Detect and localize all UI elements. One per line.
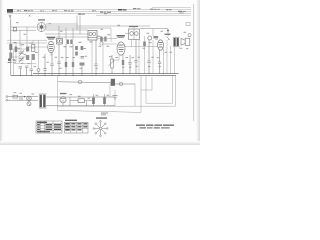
tone network box	[111, 79, 115, 86]
wire mains lower	[8, 99, 38, 101]
wire grid h	[7, 39, 47, 41]
caption line 1	[136, 125, 174, 126]
dial tick cluster b	[24, 10, 33, 11]
tuning capacitor C2	[19, 57, 24, 63]
wire v tun1	[15, 43, 17, 62]
wire v135	[134, 84, 136, 106]
wire drop r1	[58, 26, 60, 39]
dial tick cluster c	[40, 10, 44, 13]
capacitor C19	[134, 40, 137, 74]
coil pack L5	[32, 45, 35, 52]
chassis bus main	[11, 75, 176, 77]
wire v out1	[163, 47, 165, 74]
grid cap arrow V3	[167, 37, 170, 40]
frame right border	[193, 4, 195, 121]
antenna symbol	[9, 15, 12, 19]
wire v146	[145, 76, 147, 104]
aerial coil L2	[9, 44, 12, 50]
capacitor C14	[43, 54, 46, 76]
capacitor C18	[128, 55, 131, 74]
wire left v2	[26, 27, 28, 46]
wire antenna lead	[10, 19, 12, 76]
electrolytic C50	[92, 94, 95, 104]
wire v r10	[144, 36, 146, 74]
ground symbol chassis	[113, 96, 118, 99]
wire v tun2	[20, 43, 22, 52]
psu bottom rail	[55, 105, 115, 107]
input coil L1	[13, 28, 16, 31]
caption line 2	[140, 126, 170, 129]
note scribble	[101, 113, 108, 116]
junction agc	[167, 29, 169, 37]
label V2	[117, 35, 125, 38]
wire v2 grid drop	[110, 28, 112, 42]
dial tick cluster d	[52, 9, 57, 12]
dial tick cluster h	[100, 12, 111, 15]
tuning capacitor C1	[19, 50, 24, 56]
wire v93	[93, 104, 95, 106]
wire left h1	[11, 26, 36, 28]
hv rail	[58, 96, 115, 98]
label V1	[47, 37, 55, 40]
wire switch bus 4	[46, 29, 88, 31]
band switch S1	[37, 19, 46, 31]
aerial coil L3	[9, 53, 12, 59]
valve socket sunburst	[93, 121, 108, 137]
wire h out	[155, 39, 158, 41]
volume pot P1	[109, 55, 115, 74]
wire h mid3	[12, 56, 26, 58]
wire v tun4	[38, 40, 40, 68]
detector coil L9	[148, 36, 152, 40]
capacitor C30	[20, 97, 22, 101]
output tube V3	[158, 40, 164, 50]
trimmer block T2	[26, 55, 29, 60]
capacitor C6	[81, 57, 85, 59]
wire h mid2	[12, 48, 26, 50]
label Tr1	[129, 26, 138, 27]
label cluster R14	[80, 63, 85, 76]
wire v tr1a	[131, 40, 133, 48]
osc coil box L8	[88, 31, 97, 41]
wire v tun3	[32, 40, 34, 44]
resistor R2	[70, 40, 72, 45]
wire v115	[114, 90, 116, 106]
resistor R10	[143, 42, 146, 47]
wire v70	[69, 97, 71, 106]
padder capacitor C7	[100, 37, 103, 46]
coil pack L6	[32, 54, 35, 60]
wire tr1 top	[133, 26, 135, 29]
power transformer Tr3	[39, 94, 58, 108]
label V3	[165, 34, 171, 35]
mixer tube V1 ECH81	[48, 41, 54, 53]
wire h low	[14, 63, 36, 65]
wire v osc	[91, 40, 93, 74]
resistor R12	[65, 44, 67, 76]
loudspeaker LS	[181, 38, 190, 45]
dial scale line 5	[152, 7, 191, 9]
wire switch bus 3	[46, 27, 111, 29]
resistor R3	[75, 46, 78, 50]
rectifier V4	[60, 97, 66, 103]
capacitor C13	[30, 69, 33, 76]
dial tick cluster j	[133, 8, 141, 9]
wire osc to if	[97, 34, 129, 39]
dial label block	[7, 9, 13, 13]
dial tick cluster f	[78, 14, 85, 15]
component value labels	[13, 22, 189, 98]
feedback loop small	[141, 76, 152, 90]
capacitor C20	[147, 40, 150, 74]
output transformer Tr2	[173, 37, 180, 47]
feedback wire outer	[58, 76, 176, 107]
wire v tr1b	[138, 40, 140, 74]
trimmer cluster left	[8, 59, 12, 64]
capacitor C16	[57, 44, 60, 76]
wire drop r2	[65, 28, 67, 40]
wire v63	[62, 103, 64, 106]
dial tick cluster l	[166, 8, 172, 11]
wire v spk1	[170, 46, 172, 74]
wire switch bus 1	[46, 23, 77, 25]
wire dial drop 1	[76, 16, 78, 31]
capacitor C11	[19, 67, 22, 76]
wire v110 up	[109, 84, 111, 97]
socket caption	[96, 117, 107, 118]
dial scale line 3	[7, 12, 191, 14]
wire osc link 2	[46, 36, 88, 38]
bottom long wire	[58, 110, 142, 112]
wire drop v2	[30, 60, 32, 69]
wire osc link 1	[45, 33, 88, 35]
wire v det	[102, 38, 104, 74]
dial tick cluster g	[92, 9, 96, 12]
resistor R4	[75, 52, 78, 56]
filter choke R20	[70, 99, 92, 103]
capacitor C10	[13, 61, 16, 62]
table 2 voltages	[65, 122, 89, 133]
resistor R13	[72, 44, 74, 76]
wire agc h	[140, 28, 168, 30]
osc coil assembly L7	[57, 39, 63, 45]
IF transformer Tr1	[129, 29, 140, 40]
wire v if1	[112, 55, 119, 60]
wire switch bus 2	[46, 25, 150, 27]
wire drop v1	[13, 50, 15, 76]
wire dial drop 2	[79, 16, 81, 35]
feedback wire inner	[146, 76, 173, 104]
capacitor C17	[94, 40, 97, 76]
wire drop v3	[38, 72, 40, 76]
dial tick cluster m	[178, 11, 186, 14]
wire tube1 anode	[50, 53, 52, 56]
junction dots on bus	[20, 73, 164, 76]
dial tick cluster k	[150, 9, 160, 10]
electrolytic C51	[103, 98, 106, 105]
dial lamp La1	[27, 96, 32, 101]
mains terminal upper	[6, 96, 8, 98]
wire v l9	[152, 29, 154, 74]
resistor R15	[122, 55, 124, 74]
dial tick cluster i dark	[118, 9, 127, 11]
dial tick cluster a	[17, 9, 21, 12]
pilot ring	[188, 34, 191, 37]
padder capacitor C8	[104, 37, 106, 42]
resistor R11	[154, 36, 159, 38]
dial tick cluster e	[64, 10, 74, 11]
wire mains upper	[8, 96, 38, 98]
wire v spk2	[174, 47, 176, 74]
resistor R1	[67, 40, 69, 45]
wire left h2	[11, 29, 36, 31]
junction dot m1	[24, 96, 25, 97]
phones rail 2	[110, 82, 135, 85]
chassis bus upper	[33, 73, 179, 75]
wire v58	[57, 76, 59, 111]
fuse F1	[13, 95, 17, 98]
dial scale line 2	[7, 10, 191, 12]
coil L4	[15, 47, 18, 53]
wire v104	[104, 94, 106, 106]
capacitor C15	[50, 53, 53, 76]
mains terminal lower	[6, 99, 8, 101]
capacitor C12	[25, 66, 28, 76]
wire left v1	[19, 30, 21, 46]
IF tube V2 EBF89	[117, 42, 125, 55]
dial scale line 4	[96, 14, 191, 16]
wire h mid	[29, 46, 48, 48]
table 2 caption	[65, 120, 77, 121]
dial scale line 1	[7, 8, 191, 10]
trimmer block T1	[26, 47, 29, 52]
wire grid h2	[7, 42, 47, 44]
table 1 valve data	[36, 121, 62, 133]
wire v out2	[166, 40, 168, 74]
junction ring J1	[37, 69, 40, 72]
terminal box right	[186, 23, 190, 26]
wire v141 long	[140, 90, 142, 112]
wire v86	[86, 101, 88, 106]
phones rail	[58, 80, 111, 83]
wire h tube2	[103, 43, 117, 45]
wire h det	[125, 46, 158, 48]
capacitor C21	[158, 50, 161, 73]
dial lamp La2	[27, 102, 31, 106]
label V4	[60, 93, 66, 94]
dial pointer cross	[29, 15, 31, 17]
wire drop r3	[72, 28, 74, 40]
resistor R5	[81, 46, 84, 50]
